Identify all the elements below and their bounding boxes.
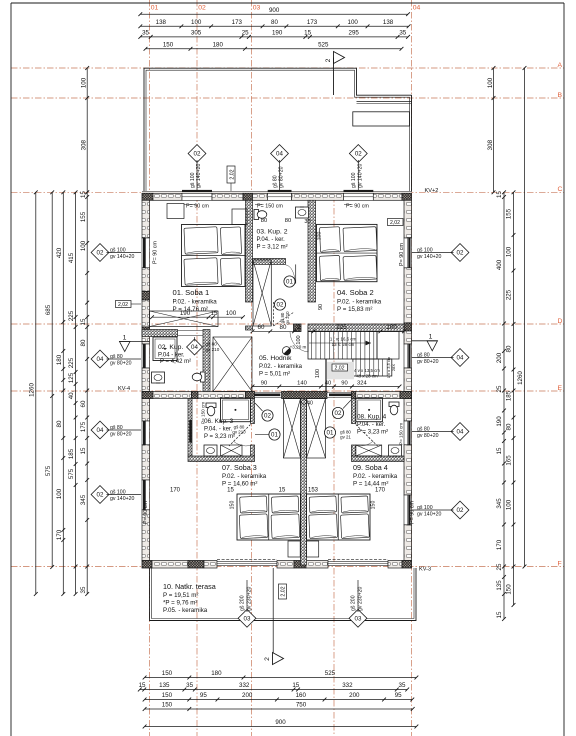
Soba2 bottom wall / stairs top — [308, 324, 404, 332]
svg-text:180: 180 — [56, 354, 63, 365]
svg-text:01: 01 — [286, 279, 293, 286]
svg-text:100: 100 — [487, 77, 494, 88]
right dimension line 1260 — [524, 68, 526, 567]
top wall: column grid03 — [243, 193, 253, 200]
bed Soba4 — [307, 494, 371, 540]
svg-text:04: 04 — [413, 5, 421, 12]
Soba4 door opening + black leaf — [327, 393, 352, 398]
terrace door left (gs200) — [217, 562, 277, 566]
svg-text:15: 15 — [139, 682, 146, 689]
bottom wall: column grid04 — [402, 561, 412, 569]
svg-text:P = 14,44 m²: P = 14,44 m² — [353, 481, 388, 488]
svg-text:P = 15,83 m²: P = 15,83 m² — [337, 306, 372, 313]
svg-text:225: 225 — [68, 310, 75, 321]
right window (gs100) Soba2 — [404, 238, 412, 268]
svg-text:gv 210: gv 210 — [285, 311, 290, 325]
bench X-box bath08 — [356, 445, 382, 456]
svg-text:308: 308 — [81, 139, 88, 150]
middle wall below Soba1 — [142, 330, 178, 337]
svg-text:15: 15 — [211, 310, 218, 317]
terrace door right (gs200) — [328, 562, 388, 566]
left dimension line A-C (100,308) — [86, 68, 88, 192]
svg-text:200: 200 — [242, 692, 253, 699]
svg-text:150: 150 — [506, 584, 513, 595]
svg-text:40,: 40, — [68, 390, 75, 399]
svg-text:80: 80 — [271, 19, 278, 26]
right wall segment — [404, 445, 412, 495]
left wall column at D — [142, 327, 150, 335]
right wall segment — [404, 200, 412, 238]
right window (gs80) Kup4 — [404, 421, 412, 445]
svg-text:gv 80+20: gv 80+20 — [417, 359, 439, 365]
svg-text:gš 100: gš 100 — [351, 172, 357, 188]
window marker 04 right Soba2 — [451, 349, 469, 367]
svg-text:KV-3: KV-3 — [419, 567, 431, 573]
wardrobe X-box Soba1 — [150, 311, 219, 327]
shaft X-box centre (middle band) — [213, 337, 252, 392]
svg-text:225: 225 — [336, 324, 347, 331]
column end of Soba2 bottom wall — [294, 324, 302, 332]
wall above lower rooms — [142, 392, 153, 399]
svg-text:07. Soba 3: 07. Soba 3 — [222, 463, 257, 472]
watermark grey box — [327, 362, 354, 380]
svg-text:gv 230+20: gv 230+20 — [358, 587, 364, 611]
parapet label window W2 — [255, 204, 262, 206]
svg-text:P = 3,23 m²: P = 3,23 m² — [204, 434, 235, 440]
left wall segment — [142, 445, 150, 480]
svg-text:P= 90 cm: P= 90 cm — [143, 501, 149, 524]
svg-text:04: 04 — [457, 429, 464, 436]
svg-text:KV+2: KV+2 — [425, 188, 439, 194]
svg-text:P= 90 cm: P= 90 cm — [186, 203, 209, 209]
svg-text:35: 35 — [399, 30, 406, 37]
svg-text:100: 100 — [80, 240, 87, 251]
roof step double line — [357, 101, 412, 103]
svg-text:P.05. - keramika: P.05. - keramika — [163, 607, 208, 614]
roof outline top-left — [144, 68, 412, 192]
left window (gs100) Soba3 — [142, 480, 150, 510]
svg-text:P= 150 cm: P= 150 cm — [257, 203, 283, 209]
parapet label window W1 — [184, 204, 196, 206]
svg-text:P.02. - keramika: P.02. - keramika — [222, 473, 267, 480]
svg-text:138: 138 — [383, 19, 394, 26]
svg-text:01: 01 — [151, 5, 159, 12]
svg-text:F: F — [558, 560, 562, 567]
svg-text:25: 25 — [496, 385, 503, 392]
sink Kup(02) — [152, 372, 165, 383]
svg-text:15: 15 — [227, 488, 234, 494]
top wall segment — [212, 193, 243, 200]
svg-text:P= 90 cm: P= 90 cm — [399, 243, 405, 266]
svg-text:C: C — [558, 186, 563, 193]
top wall segment — [373, 193, 402, 200]
right wall segment — [404, 331, 412, 344]
svg-text:04: 04 — [457, 355, 464, 362]
left wall segment — [142, 510, 150, 561]
sheet border — [11, 2, 564, 4]
svg-text:575: 575 — [68, 468, 75, 479]
svg-text:15: 15 — [80, 447, 87, 454]
svg-text:03. Kup. 2: 03. Kup. 2 — [257, 229, 288, 236]
window W2 (gs80) Kup2 — [268, 193, 292, 200]
svg-text:P = 14,60 m²: P = 14,60 m² — [222, 481, 257, 488]
svg-text:P.02. - keramika: P.02. - keramika — [173, 299, 218, 306]
lintel label 2,02 hodnik — [332, 364, 348, 371]
shower Kup(02) — [153, 337, 177, 361]
svg-text:25: 25 — [496, 563, 503, 570]
svg-text:*P = 9,76 m²: *P = 9,76 m² — [163, 600, 197, 607]
svg-text:09. Soba 4: 09. Soba 4 — [353, 463, 388, 472]
svg-text:gv 140+20: gv 140+20 — [358, 164, 364, 188]
bath08 left wall — [352, 399, 356, 424]
svg-text:06. Kup. 3: 06. Kup. 3 — [204, 418, 234, 425]
svg-text:150: 150 — [162, 670, 173, 677]
svg-text:D: D — [558, 318, 563, 325]
wall right of Soba1 lower part — [246, 326, 253, 330]
svg-text:1: 1 — [429, 334, 433, 341]
svg-text:308: 308 — [487, 139, 494, 150]
svg-text:04. Soba 2: 04. Soba 2 — [337, 288, 374, 297]
bath06 right wall — [251, 399, 255, 424]
svg-text:05. Hodnik: 05. Hodnik — [259, 355, 292, 362]
svg-text:332: 332 — [239, 682, 250, 689]
right wall segment — [404, 399, 412, 422]
right dimension line 3 — [513, 192, 515, 605]
right wall segment — [404, 525, 412, 561]
window marker 04 left Kup — [91, 350, 109, 368]
svg-text:324: 324 — [357, 380, 367, 386]
window marker 04 right Kup4 — [451, 423, 469, 441]
svg-text:200: 200 — [349, 692, 360, 699]
bottom dimension row 150-180-525 — [145, 677, 417, 679]
right dimension line A-C (100,308) — [493, 68, 495, 192]
svg-text:1 : v: 16,6 cm: 1 : v: 16,6 cm — [330, 337, 357, 342]
door number 02 bath06 — [262, 410, 273, 421]
interior dims Soba1 (190 15 100) — [152, 316, 243, 318]
svg-text:100: 100 — [386, 324, 397, 331]
svg-text:173: 173 — [307, 19, 318, 26]
svg-text:95: 95 — [200, 692, 207, 699]
svg-text:gš 80: gš 80 — [206, 342, 218, 347]
svg-text:15: 15 — [496, 191, 503, 198]
svg-text:420: 420 — [56, 247, 63, 258]
bed Soba3 — [237, 494, 301, 540]
svg-text:P.04 - ker.: P.04 - ker. — [158, 353, 185, 359]
top wall segment — [292, 193, 344, 200]
svg-text:13 š: 28 cm: 13 š: 28 cm — [332, 342, 355, 347]
svg-text:03: 03 — [244, 616, 251, 623]
svg-text:180: 180 — [213, 41, 224, 48]
svg-text:2: 2 — [297, 324, 301, 331]
terrace outline — [150, 568, 417, 621]
left dimension line 1260 — [35, 192, 37, 594]
svg-text:gv 210: gv 210 — [206, 347, 220, 352]
svg-text:173: 173 — [232, 19, 243, 26]
left dimension line 3 — [62, 192, 64, 594]
svg-text:P.02. - keramika: P.02. - keramika — [337, 299, 382, 306]
nightstand foot Soba3 — [288, 541, 300, 557]
svg-text:525: 525 — [325, 670, 336, 677]
svg-text:gš 80: gš 80 — [272, 175, 278, 188]
nightstand Soba1 left — [167, 204, 184, 219]
svg-text:100: 100 — [191, 19, 202, 26]
svg-text:525: 525 — [318, 41, 329, 48]
wall left of Soba2 lower — [308, 326, 316, 332]
bottom dimension row 900 — [145, 726, 417, 728]
svg-text:170: 170 — [56, 529, 63, 540]
svg-text:03: 03 — [253, 5, 261, 12]
svg-text:332: 332 — [342, 682, 353, 689]
svg-text:2,02: 2,02 — [230, 169, 236, 179]
svg-text:B: B — [558, 92, 563, 99]
svg-text:415: 415 — [68, 252, 75, 263]
svg-text:190: 190 — [180, 310, 191, 317]
svg-text:gš 100: gš 100 — [190, 172, 196, 188]
svg-text:80: 80 — [261, 218, 267, 224]
svg-text:15: 15 — [80, 318, 87, 325]
nightstand Soba1 right — [232, 209, 247, 225]
left window (gs100) Soba1 — [142, 238, 150, 268]
svg-text:15: 15 — [496, 447, 503, 454]
bottom wall segment — [204, 561, 217, 569]
svg-text:28X: 28X — [391, 364, 396, 371]
svg-text:P = 3,23 m²: P = 3,23 m² — [357, 430, 388, 436]
svg-text:gš 100: gš 100 — [417, 505, 433, 511]
svg-text:100: 100 — [81, 77, 88, 88]
svg-text:25: 25 — [242, 30, 249, 37]
svg-text:gv 80+20: gv 80+20 — [110, 361, 132, 367]
left wall segment — [142, 335, 150, 344]
left wall column — [142, 292, 150, 301]
svg-text:gv 140+20: gv 140+20 — [417, 512, 441, 518]
bath06 bottom wall — [188, 456, 255, 462]
svg-text:153: 153 — [308, 488, 319, 494]
right wall segment — [404, 368, 412, 392]
svg-text:A: A — [558, 62, 563, 69]
svg-text:02: 02 — [457, 507, 464, 514]
svg-text:900: 900 — [269, 7, 280, 14]
svg-text:80: 80 — [56, 420, 63, 427]
lintel label 2,02 top (between Soba1/Kup2) — [227, 166, 235, 183]
top dimension row 900 — [140, 13, 408, 15]
svg-text:P = 3,12 m²: P = 3,12 m² — [257, 245, 288, 251]
svg-text:2,02: 2,02 — [281, 586, 287, 596]
right wall segment — [404, 268, 412, 323]
svg-text:1260: 1260 — [28, 383, 35, 397]
svg-text:900: 900 — [275, 719, 286, 726]
bottom wall segment — [277, 561, 294, 569]
svg-text:190: 190 — [496, 416, 503, 427]
wardrobe X-box right of centre wall — [307, 399, 326, 459]
window W3 (gs100) Soba2 — [344, 193, 374, 200]
bed Soba1 — [182, 225, 246, 287]
svg-text:305: 305 — [191, 30, 202, 37]
window W1 (gs100) Soba1 — [182, 193, 212, 200]
svg-text:100: 100 — [348, 19, 359, 26]
lintel label 2,02 terrace — [279, 584, 287, 599]
bottom wall segment — [152, 561, 188, 569]
svg-text:02. Kup.: 02. Kup. — [158, 344, 183, 351]
Kup door opening lines — [178, 330, 204, 332]
nightstand foot Soba4 — [307, 541, 319, 557]
svg-text:750: 750 — [296, 702, 307, 709]
door number 02 hodnik — [274, 299, 285, 310]
svg-text:35: 35 — [399, 682, 406, 689]
door number 02 bath08 — [332, 407, 343, 418]
svg-text:15: 15 — [292, 682, 299, 689]
svg-text:170: 170 — [170, 488, 181, 494]
bottom wall: column grid02 — [188, 561, 204, 569]
wall right of Soba1 — [246, 200, 253, 302]
staircase upper flight — [308, 332, 377, 360]
svg-text:01: 01 — [327, 430, 334, 437]
svg-text:P.04. - ker.: P.04. - ker. — [204, 427, 233, 433]
svg-text:2: 2 — [325, 58, 332, 62]
svg-text:90: 90 — [261, 380, 267, 386]
svg-text:gš 80: gš 80 — [417, 427, 430, 433]
svg-text:190: 190 — [272, 30, 283, 37]
svg-text:gv 80+20: gv 80+20 — [279, 166, 285, 188]
left dimension line 4 — [51, 192, 53, 567]
interior dims hodnik row — [253, 386, 400, 388]
parapet label window W3 — [344, 204, 351, 206]
svg-text:08. Kup. 4: 08. Kup. 4 — [357, 414, 387, 421]
svg-text:02: 02 — [457, 250, 464, 257]
svg-text:125: 125 — [68, 372, 75, 383]
svg-text:15: 15 — [80, 191, 87, 198]
svg-text:150: 150 — [162, 692, 173, 699]
svg-text:gv 80+20: gv 80+20 — [417, 433, 439, 439]
right window (gs80) Soba2 low — [404, 344, 412, 368]
left dimension line 2 — [75, 192, 77, 594]
svg-text:KV-4: KV-4 — [118, 386, 130, 392]
svg-text:15: 15 — [279, 488, 286, 494]
svg-text:150: 150 — [162, 702, 173, 709]
svg-text:4š x 28 cm: 4š x 28 cm — [356, 373, 378, 378]
bottom wall segment — [306, 561, 328, 569]
bottom dimension row 150-750 — [145, 708, 413, 710]
svg-text:155: 155 — [80, 211, 87, 222]
interior dims 225 100 row Soba2 — [314, 330, 405, 332]
svg-text:04: 04 — [97, 356, 104, 363]
svg-text:02: 02 — [277, 302, 284, 309]
svg-text:80: 80 — [80, 339, 87, 346]
svg-text:100: 100 — [56, 488, 63, 499]
svg-text:04: 04 — [191, 344, 198, 351]
svg-text:80: 80 — [280, 324, 287, 331]
svg-text:gv 140+20: gv 140+20 — [417, 254, 441, 260]
stair direction arrow — [309, 342, 371, 344]
svg-text:P= 150 cm: P= 150 cm — [201, 402, 206, 424]
svg-text:160: 160 — [296, 692, 307, 699]
svg-text:95: 95 — [395, 692, 402, 699]
svg-text:P = 4,42 m²: P = 4,42 m² — [160, 359, 191, 365]
svg-text:100: 100 — [296, 335, 302, 344]
top dimension row 138-100-173-80-173-100-138 — [140, 25, 408, 27]
window marker 02 left Soba3 — [91, 486, 109, 504]
left dimension fine line — [86, 192, 88, 594]
door Soba2 leaf — [307, 332, 309, 353]
toilet Kup(02) — [201, 372, 206, 382]
staircase lower flight — [353, 359, 392, 376]
right wall column at D — [404, 323, 412, 331]
svg-text:150: 150 — [371, 501, 377, 510]
svg-text:100: 100 — [506, 499, 513, 510]
sink bath08 — [389, 445, 402, 456]
door number 01 hodnik — [284, 276, 295, 287]
svg-text:P= 90 cm: P= 90 cm — [153, 241, 159, 264]
left wall column — [142, 392, 150, 399]
bath08 door leaf dashed — [356, 425, 378, 447]
window marker 02 right Soba2 — [451, 244, 469, 262]
svg-text:90: 90 — [318, 304, 324, 310]
svg-text:80: 80 — [506, 345, 513, 352]
Kup2 bottom wall — [253, 259, 286, 265]
right wall column — [404, 392, 412, 399]
toilet bath06 — [206, 403, 216, 408]
svg-text:15: 15 — [496, 611, 503, 618]
svg-text:gš 80: gš 80 — [417, 353, 430, 359]
left wall segment — [142, 200, 150, 238]
svg-text:200: 200 — [496, 352, 503, 363]
Kup(02) right wall — [203, 330, 210, 392]
svg-text:P = 5,01 m²: P = 5,01 m² — [259, 372, 290, 378]
svg-text:02: 02 — [194, 151, 201, 158]
left wall segment — [142, 268, 150, 292]
door number 01 bath08 — [324, 427, 335, 438]
svg-text:80: 80 — [506, 423, 513, 430]
svg-text:04: 04 — [276, 151, 283, 158]
svg-text:150: 150 — [163, 41, 174, 48]
svg-text:gš 80: gš 80 — [110, 354, 123, 360]
svg-text:02: 02 — [355, 151, 362, 158]
toilet Kup2 — [254, 210, 259, 220]
svg-text:40: 40 — [325, 380, 331, 386]
window marker 02 top Soba2 — [349, 145, 367, 163]
svg-text:P.02. - keramika: P.02. - keramika — [353, 473, 398, 480]
top dimension row 150-180-525 — [146, 48, 402, 50]
left wall segment — [142, 399, 150, 422]
svg-text:P = 14,76 m²: P = 14,76 m² — [173, 306, 208, 313]
svg-text:gv 140+20: gv 140+20 — [110, 496, 134, 502]
svg-text:P= 150 cm: P= 150 cm — [399, 423, 404, 445]
svg-text:30: 30 — [304, 219, 310, 225]
svg-text:35: 35 — [80, 586, 87, 593]
svg-text:135: 135 — [496, 580, 503, 591]
svg-text:1: 1 — [123, 335, 127, 342]
svg-text:185: 185 — [506, 390, 513, 401]
left window (gs80) Soba3 — [142, 421, 150, 445]
svg-text:P.04. - ker.: P.04. - ker. — [357, 422, 386, 428]
door marker 03 terrace right — [349, 609, 367, 627]
bottom dimension row 150-95-200-160-200-95 — [145, 699, 413, 701]
svg-text:gv 140+20: gv 140+20 — [110, 254, 134, 260]
top wall: column grid04 — [402, 193, 412, 200]
svg-text:135: 135 — [159, 682, 170, 689]
svg-text:1260: 1260 — [517, 371, 524, 385]
lintel label 2,02 Soba1 wall — [116, 301, 132, 308]
svg-text:P = 19,51 m²: P = 19,51 m² — [163, 592, 198, 599]
svg-text:02: 02 — [198, 5, 206, 12]
svg-text:90: 90 — [341, 380, 347, 386]
svg-text:345: 345 — [496, 498, 503, 509]
svg-text:gš 100: gš 100 — [417, 248, 433, 254]
svg-text:35: 35 — [142, 30, 149, 37]
svg-text:01: 01 — [271, 432, 278, 439]
svg-text:P.04. - ker.: P.04. - ker. — [257, 237, 286, 243]
left wall segment — [142, 300, 150, 327]
svg-text:100: 100 — [506, 246, 513, 257]
